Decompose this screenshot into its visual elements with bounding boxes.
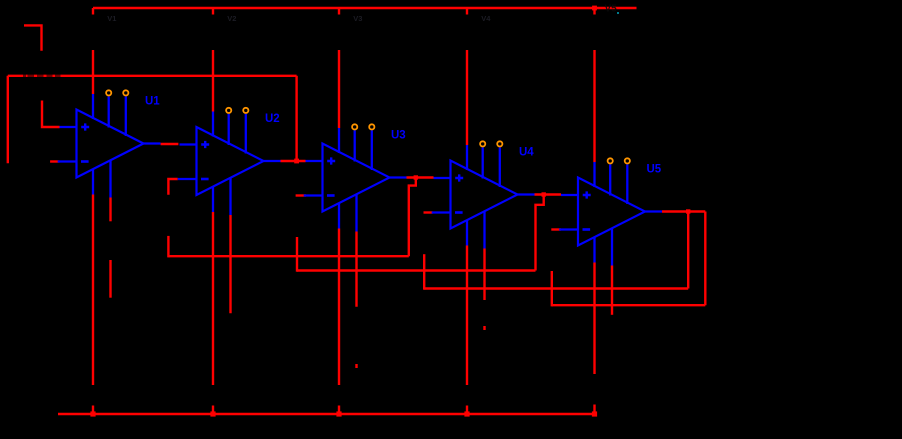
wire input source bracket (top left) bbox=[24, 25, 42, 50]
wire stub at U3 inverting input bbox=[296, 194, 306, 196]
junction dot on bottom bus (U1 column) bbox=[90, 411, 95, 416]
NC pin circle 2 of U2 bbox=[243, 108, 248, 113]
wire U3 bottom pin 1 column bbox=[338, 229, 340, 386]
wire U1 output to U2 + input bbox=[161, 143, 179, 145]
op-amp U1 bbox=[58, 94, 161, 198]
wire tick above bottom bus (U5 column) bbox=[593, 405, 595, 415]
wire U2 feedback corner (to R) bbox=[168, 179, 177, 195]
op-amp U2 bbox=[178, 112, 281, 216]
wire feedback run h1 (U3 out -> U2 -) bbox=[168, 255, 408, 257]
junction node U2 output / feedback bus bbox=[294, 159, 299, 164]
op-amp U3 bbox=[304, 128, 407, 232]
wire U3 output to U4 + input bbox=[407, 176, 434, 178]
wire stub below top bus (source V1 column) bbox=[92, 8, 94, 15]
feedback bus (U2 output to U1 input network) bbox=[8, 75, 297, 77]
wire feedback run h3 (U5 out -> U4 -) bbox=[424, 287, 688, 289]
wire U2 bottom pin 2 column bbox=[229, 215, 231, 313]
wire U4 output to U5 + input bbox=[535, 193, 562, 195]
wire riser h3 to U5 output bbox=[687, 212, 689, 289]
ground bus (bottom) bbox=[58, 413, 595, 416]
NC pin circle 2 of U5 bbox=[625, 158, 630, 163]
wire riser h2 to U4 output with jog bbox=[536, 195, 544, 271]
junction dot on U5 output wire bbox=[686, 209, 690, 213]
junction dot on bottom bus (U4 column) bbox=[464, 411, 469, 416]
wire U1 bottom pin 2 column bbox=[109, 198, 111, 222]
wire U4 bottom pin 2 column bbox=[483, 249, 485, 301]
NC pin circle 1 of U2 bbox=[226, 108, 231, 113]
wire U5 output end down to h4 bbox=[704, 212, 706, 306]
svg-text:V1: V1 bbox=[107, 14, 116, 23]
wire U2 bottom pin 1 column bbox=[212, 212, 214, 385]
wire U5 bottom pin 2 column bbox=[611, 266, 613, 315]
svg-text:U1: U1 bbox=[145, 96, 160, 108]
wire tick above bottom bus (U4 column) bbox=[466, 406, 468, 415]
NC pin circle 1 of U3 bbox=[352, 124, 357, 129]
wire stub at U4 inverting input bbox=[424, 211, 433, 213]
wire U5 bottom pin 1 column bbox=[593, 263, 595, 375]
wire stub below top bus (source V3 column) bbox=[338, 8, 340, 15]
wire feedback run h4 (U5 out end -> U5 -) bbox=[552, 304, 706, 306]
NC pin circle 1 of U4 bbox=[480, 141, 485, 146]
junction dot on bottom bus (U2 column) bbox=[210, 411, 215, 416]
junction dot on bottom bus (U5 column) bbox=[592, 411, 597, 416]
NC pin circle 2 of U1 bbox=[123, 90, 128, 95]
wire riser h1 to U3 output with jog bbox=[409, 178, 416, 257]
svg-text:V2: V2 bbox=[227, 14, 236, 23]
junction dot on U3 output wire bbox=[414, 175, 418, 179]
wire R to feedback run h2 (U3 -) bbox=[296, 237, 298, 272]
wire feedback run h2 (U4 out -> U3 -) bbox=[297, 269, 536, 271]
wire R to feedback run h3 (U4 -) bbox=[423, 254, 425, 290]
wire tick below U4 pin2 components bbox=[483, 326, 485, 330]
wire left vertical to R at U1 inverting input bbox=[7, 76, 9, 164]
wire tick above bottom bus (U3 column) bbox=[338, 406, 340, 415]
wire R to feedback run h1 bbox=[167, 236, 169, 258]
wire source V4 to U4 power pin bbox=[466, 50, 468, 145]
svg-text:V5: V5 bbox=[605, 4, 618, 15]
wire tick above bottom bus (U2 column) bbox=[212, 406, 214, 415]
wire stub below top bus (source V4 column) bbox=[466, 8, 468, 15]
op-amp U4 bbox=[432, 145, 535, 249]
wire below source to U1 non-inverting input bbox=[42, 101, 60, 128]
wire U4 bottom pin 1 column bbox=[466, 246, 468, 386]
wire source V5 to U5 power pin bbox=[593, 50, 595, 162]
wire tick below U3 pin2 components bbox=[355, 364, 357, 368]
junction dot on U4 output wire bbox=[542, 192, 546, 196]
wire stub at U5 inverting input bbox=[551, 228, 561, 230]
NC pin circle 2 of U3 bbox=[369, 124, 374, 129]
wire source V3 to U3 power pin bbox=[338, 50, 340, 128]
svg-text:V3: V3 bbox=[353, 14, 362, 23]
op-amp U5 bbox=[559, 162, 662, 266]
wire stub at U1 inverting input bbox=[50, 160, 59, 162]
junction dot on top bus at V5 column bbox=[592, 6, 597, 11]
wire source V1 to U1 power pin bbox=[92, 50, 94, 94]
wire U1 bottom pin 1 column bbox=[92, 195, 94, 386]
svg-text:V4: V4 bbox=[481, 14, 491, 23]
wire U2 output to U3 + input bbox=[281, 160, 306, 162]
wire stub below top bus (source V2 column) bbox=[212, 8, 214, 15]
wire stub below top bus (source V5 column) bbox=[593, 8, 595, 15]
NC pin circle 1 of U1 bbox=[106, 90, 111, 95]
svg-text:U5: U5 bbox=[647, 164, 662, 176]
dim overlay on feedback bus (black label overlap) bbox=[23, 74, 26, 77]
wire U3 bottom pin 2 column bbox=[355, 232, 357, 307]
power bus VCC (top) bbox=[93, 7, 637, 10]
wire U5 output bbox=[662, 210, 705, 212]
svg-text:U3: U3 bbox=[391, 130, 406, 142]
svg-text:U4: U4 bbox=[519, 147, 534, 159]
NC pin circle 2 of U4 bbox=[497, 141, 502, 146]
wire source V2 to U2 power pin bbox=[212, 50, 214, 112]
svg-text:U2: U2 bbox=[265, 113, 280, 125]
junction dot on bottom bus (U3 column) bbox=[336, 411, 341, 416]
wire R to feedback run h4 (U5 -) bbox=[551, 271, 553, 306]
NC pin circle 1 of U5 bbox=[608, 158, 613, 163]
wire feedback-bus right end down to U2 output node bbox=[295, 76, 297, 161]
wire tick above bottom bus (U1 column) bbox=[92, 406, 94, 415]
